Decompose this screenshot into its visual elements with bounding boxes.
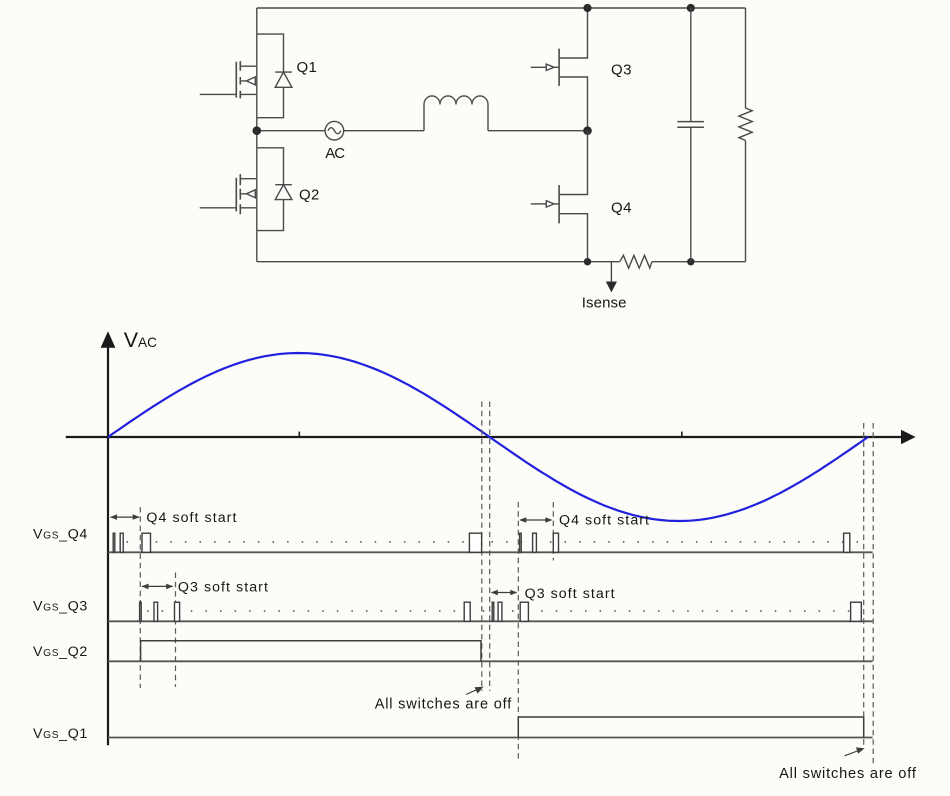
annotation All switches are off (right): [779, 747, 917, 782]
svg-text:Q3: Q3: [611, 61, 632, 78]
tick three-quarter period: [681, 432, 683, 438]
annotation All switches are off (mid): [375, 687, 513, 713]
Q1 gate pulse rectangle: [518, 717, 863, 738]
svg-text:VGS_Q4: VGS_Q4: [33, 527, 87, 543]
capacitor C1: [677, 8, 704, 262]
dashed line t4: [489, 402, 491, 692]
baseline Q4: [108, 551, 873, 553]
transistor Q3: [531, 8, 588, 131]
dotted level Q3: [147, 610, 861, 612]
dashed line t8: [872, 423, 874, 765]
node bottom rail at capacitor: [687, 258, 694, 265]
wire bottom rail right: [652, 261, 746, 263]
wire bottom rail left: [257, 261, 620, 263]
svg-text:Q3 soft start: Q3 soft start: [525, 586, 615, 602]
resistor Rsense: [620, 255, 652, 268]
svg-text:Q4 soft start: Q4 soft start: [559, 512, 649, 528]
svg-text:Q4 soft start: Q4 soft start: [146, 510, 236, 526]
svg-text:Q1: Q1: [297, 59, 317, 76]
svg-text:All switches are off: All switches are off: [375, 697, 513, 713]
diode D2 (Q2 body diode): [257, 148, 292, 231]
annotation Q3 soft start (left): [142, 579, 268, 595]
svg-text:VGS_Q2: VGS_Q2: [33, 644, 87, 660]
SCHEMATIC SECTION: [257, 8, 746, 262]
Q2 gate pulse rectangle: [141, 641, 481, 662]
baseline Q1: [108, 737, 873, 739]
svg-text:Q4: Q4: [611, 199, 632, 216]
dashed line t3: [481, 402, 483, 692]
node top rail at capacitor: [687, 4, 695, 12]
annotation Q4 soft start (left): [110, 510, 236, 526]
diode D1 (Q1 body diode): [257, 34, 292, 118]
svg-text:Isense: Isense: [582, 294, 627, 311]
svg-text:Q3 soft start: Q3 soft start: [178, 579, 268, 595]
Isense arrow: [606, 262, 617, 293]
baseline Q3: [108, 620, 873, 622]
node top rail at Q3 drain: [583, 4, 591, 12]
dashed line t7: [863, 423, 865, 747]
wire right branch vertical bottom: [745, 141, 747, 262]
dashed line t5: [517, 502, 519, 761]
svg-text:Q2: Q2: [299, 186, 319, 203]
node A (half-bridge left midpoint): [252, 126, 261, 135]
tick quarter period: [298, 432, 300, 438]
x axis: [66, 430, 916, 445]
node bottom rail at Q4 source: [584, 258, 591, 265]
wire top rail: [257, 7, 746, 9]
svg-text:All switches are off: All switches are off: [779, 766, 917, 782]
inductor L1: [424, 96, 488, 131]
baseline Q2: [108, 660, 873, 662]
dashed line t2: [175, 573, 177, 688]
wire inductor to right midpoint: [488, 130, 588, 132]
svg-text:AC: AC: [325, 145, 345, 162]
sine wave VAC: [108, 353, 868, 521]
node B (half-bridge right midpoint): [583, 126, 592, 135]
transistor Q4: [531, 131, 588, 262]
Q3 pulses: [140, 602, 862, 621]
wire right branch vertical top: [745, 8, 747, 108]
transistor Q2: [200, 174, 257, 214]
dashed line t6: [552, 502, 554, 561]
y axis: [101, 331, 116, 745]
svg-text:VGS_Q1: VGS_Q1: [33, 726, 87, 742]
resistor Rload: [739, 108, 752, 141]
dotted level Q4: [127, 541, 862, 543]
Q4 pulses: [113, 533, 850, 552]
dashed line t1: [139, 507, 141, 688]
AC source V1: [261, 121, 424, 140]
wire left leg vertical: [256, 8, 258, 262]
svg-text:VGS_Q3: VGS_Q3: [33, 598, 87, 614]
transistor Q1: [200, 61, 257, 98]
annotation Q3 soft start (right): [491, 586, 615, 602]
annotation Q4 soft start (right): [519, 512, 649, 528]
